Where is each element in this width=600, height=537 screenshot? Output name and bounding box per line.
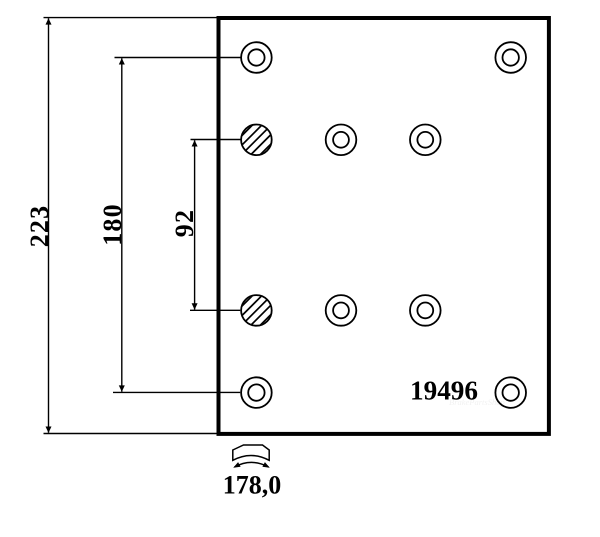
svg-text:BrakePartsShop: BrakePartsShop — [449, 397, 505, 407]
svg-text:180: 180 — [98, 203, 127, 246]
svg-text:178,0: 178,0 — [223, 470, 282, 499]
svg-text:223: 223 — [25, 205, 54, 248]
svg-text:92: 92 — [170, 209, 199, 237]
